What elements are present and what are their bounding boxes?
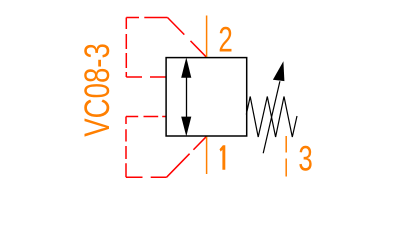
wire: port 3 dashed line (orange) bbox=[285, 136, 287, 177]
wire: port 2 line (orange) bbox=[206, 16, 208, 58]
wire: port 1 line (orange) bbox=[206, 136, 208, 174]
adjustment arrow shaft bbox=[263, 81, 280, 153]
wire: top pilot bracket bottom horizontal (red dashed) bbox=[126, 76, 166, 78]
wire: top pilot bracket vertical (red dashed) bbox=[125, 18, 127, 78]
wire: bottom pilot bracket top horizontal (red dashed) bbox=[126, 116, 166, 118]
svg-text:2: 2 bbox=[218, 19, 232, 59]
port label 1 bbox=[220, 145, 226, 170]
adjustment arrow head bbox=[273, 61, 285, 81]
wire: bottom pilot bracket bottom horizontal (red dashed) bbox=[126, 176, 167, 178]
flow arrow shaft bbox=[186, 68, 188, 126]
svg-text:3: 3 bbox=[298, 138, 312, 178]
svg-text:VC08-3: VC08-3 bbox=[77, 43, 117, 137]
wire: bottom pilot diagonal to port 1 node (red dashed) bbox=[167, 136, 207, 177]
flow arrow bottom head bbox=[181, 117, 191, 137]
wire: top pilot bracket top horizontal (red dashed) bbox=[126, 17, 167, 19]
valve body box bbox=[166, 58, 247, 136]
flow arrow top head bbox=[181, 57, 191, 77]
spring bbox=[246, 97, 297, 138]
wire: top pilot diagonal to port 2 node (red dashed) bbox=[168, 18, 207, 58]
wire: bottom pilot bracket vertical (red dashed) bbox=[125, 117, 127, 178]
